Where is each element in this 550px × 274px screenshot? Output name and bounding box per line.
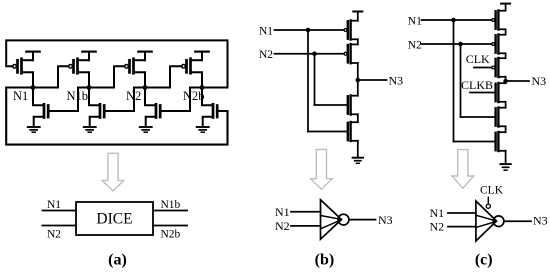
svg-text:N2: N2 — [430, 220, 445, 234]
svg-text:N3: N3 — [389, 73, 404, 87]
svg-text:N3: N3 — [533, 214, 548, 228]
svg-text:(a): (a) — [108, 252, 127, 269]
svg-text:N2b: N2b — [161, 229, 181, 241]
svg-text:CLK: CLK — [466, 52, 490, 66]
svg-text:(b): (b) — [315, 252, 335, 269]
svg-text:N3: N3 — [378, 213, 393, 227]
svg-text:N2: N2 — [275, 219, 290, 233]
svg-text:N2b: N2b — [183, 89, 205, 103]
svg-text:(c): (c) — [475, 252, 493, 269]
svg-text:N1: N1 — [408, 15, 422, 27]
svg-text:N1: N1 — [47, 199, 61, 211]
svg-text:CLK: CLK — [480, 184, 504, 196]
svg-text:DICE: DICE — [96, 211, 132, 228]
svg-text:N3: N3 — [532, 74, 547, 88]
svg-text:N1: N1 — [430, 206, 445, 220]
svg-text:N2: N2 — [408, 39, 422, 51]
svg-text:N1: N1 — [275, 205, 290, 219]
svg-text:N1: N1 — [259, 25, 273, 37]
svg-text:N1b: N1b — [161, 199, 181, 211]
svg-text:N2: N2 — [126, 89, 141, 103]
svg-text:N2: N2 — [259, 49, 273, 61]
svg-text:CLKB: CLKB — [461, 78, 493, 92]
svg-text:N2: N2 — [47, 229, 61, 241]
svg-text:N1: N1 — [13, 89, 28, 103]
svg-text:N1b: N1b — [67, 89, 89, 103]
